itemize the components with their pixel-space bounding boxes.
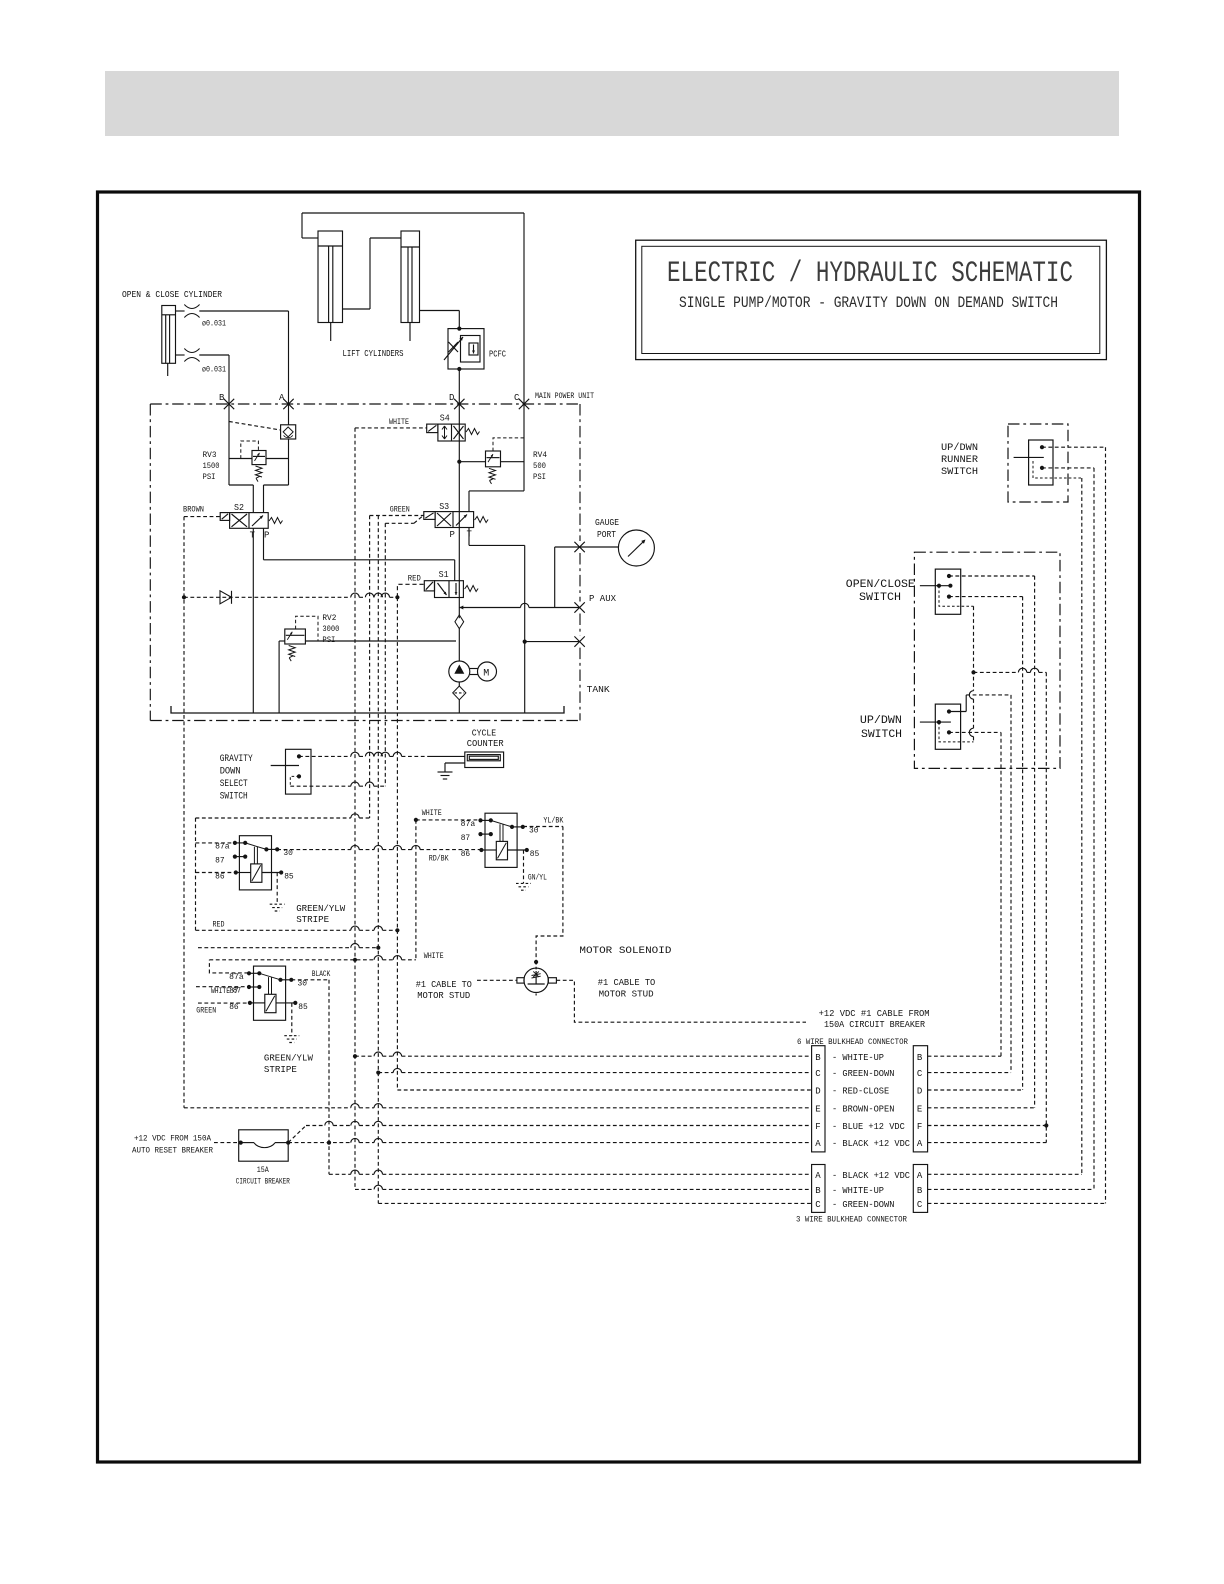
wire: green vertical 2 xyxy=(377,516,379,1204)
svg-text:M: M xyxy=(483,669,489,680)
wire: gravity switch to cycle counter xyxy=(299,755,430,757)
svg-text:87: 87 xyxy=(461,834,471,843)
junction arrow xyxy=(459,606,463,610)
wire: row B white-up xyxy=(355,1055,812,1057)
wire: red wire to S1 solenoid xyxy=(397,584,424,597)
svg-text:T: T xyxy=(250,531,256,541)
relay K3 ground xyxy=(291,1003,293,1036)
svg-text:WHITE: WHITE xyxy=(424,951,444,961)
cycle counter ground xyxy=(445,762,465,764)
svg-text:- WHITE-UP: - WHITE-UP xyxy=(832,1053,884,1063)
svg-text:BLACK: BLACK xyxy=(312,969,331,979)
wire: gravity select vertical xyxy=(384,523,386,786)
svg-text:YL/BK: YL/BK xyxy=(543,816,564,826)
wire: cable to motor stud (left) xyxy=(477,979,517,981)
port GAUGE xyxy=(574,542,584,552)
svg-text:D: D xyxy=(917,1087,922,1097)
wire: K3 87a harness xyxy=(209,960,248,973)
svg-text:STRIPE: STRIPE xyxy=(264,1064,297,1075)
svg-text:E: E xyxy=(815,1104,820,1114)
svg-text:87: 87 xyxy=(215,857,225,866)
svg-text:15A: 15A xyxy=(257,1165,270,1175)
svg-text:F: F xyxy=(917,1122,922,1132)
svg-text:ø0.031: ø0.031 xyxy=(202,365,226,375)
svg-text:GREEN: GREEN xyxy=(390,505,410,515)
svg-text:B: B xyxy=(815,1186,821,1196)
wire: 3wire row A xyxy=(329,1173,812,1175)
svg-text:UP/DWN: UP/DWN xyxy=(941,442,978,454)
3 wire connector right column xyxy=(913,1165,927,1213)
wire: PCFC to node D xyxy=(458,369,460,404)
pilot check valve (A line) xyxy=(281,425,296,439)
wire: open/close common xyxy=(939,586,974,607)
svg-text:- BLACK +12 VDC: - BLACK +12 VDC xyxy=(832,1139,911,1149)
svg-text:PCFC: PCFC xyxy=(489,349,506,360)
svg-text:+12 VDC #1 CABLE FROM: +12 VDC #1 CABLE FROM xyxy=(819,1008,930,1019)
svg-text:C: C xyxy=(917,1200,923,1210)
svg-text:BROWN: BROWN xyxy=(183,505,204,515)
wire: close contact xyxy=(949,596,1023,598)
wire: right row B xyxy=(928,1055,1001,1057)
wire: up contact xyxy=(949,711,966,713)
up/dwn runner switch box xyxy=(1008,424,1068,502)
svg-text:GRAVITY: GRAVITY xyxy=(220,753,254,765)
svg-text:87a: 87a xyxy=(215,843,230,852)
svg-text:S3: S3 xyxy=(439,502,449,512)
lift cylinder 1 xyxy=(318,231,343,323)
svg-text:UP/DWN: UP/DWN xyxy=(860,715,902,727)
wire: K2 white drop xyxy=(415,820,417,960)
page header gray bar xyxy=(105,71,1119,136)
svg-text:A: A xyxy=(917,1171,923,1181)
wire: right 3wire rows xyxy=(928,1173,1082,1175)
wire: row A black +12 xyxy=(288,1142,811,1144)
svg-text:MOTOR STUD: MOTOR STUD xyxy=(599,990,654,1000)
svg-text:- BROWN-OPEN: - BROWN-OPEN xyxy=(832,1104,894,1114)
svg-text:+12 VDC FROM 150A: +12 VDC FROM 150A xyxy=(134,1134,212,1144)
wire: P AUX line xyxy=(459,607,579,609)
suction filter xyxy=(458,682,460,686)
gauge xyxy=(618,530,654,566)
svg-text:ELECTRIC / HYDRAULIC SCHEMATIC: ELECTRIC / HYDRAULIC SCHEMATIC xyxy=(667,256,1073,290)
svg-text:P: P xyxy=(450,530,455,540)
wire: gravity switch lower xyxy=(290,785,385,787)
svg-text:PSI: PSI xyxy=(203,472,216,482)
svg-text:GREEN/YLW: GREEN/YLW xyxy=(264,1053,313,1064)
svg-text:ø0.031: ø0.031 xyxy=(202,319,226,329)
wire: brown wire to S2 solenoid xyxy=(184,516,220,518)
wire: green branch lead xyxy=(198,947,378,949)
svg-text:GN/YL: GN/YL xyxy=(528,873,547,883)
svg-text:S1: S1 xyxy=(439,570,449,580)
svg-text:85: 85 xyxy=(284,873,294,882)
shaft xyxy=(470,668,478,670)
svg-text:87a: 87a xyxy=(229,973,244,982)
svg-text:30: 30 xyxy=(529,827,539,836)
wire: breaker to F row xyxy=(288,1126,306,1143)
svg-text:GREEN/YLW: GREEN/YLW xyxy=(296,903,345,914)
wire: right vertical B xyxy=(1000,732,1002,1056)
svg-text:A: A xyxy=(815,1171,821,1181)
wire: white vertical xyxy=(354,428,356,1190)
svg-text:86: 86 xyxy=(215,873,225,882)
runner switch xyxy=(1029,440,1053,485)
svg-text:C: C xyxy=(514,393,520,403)
svg-text:30: 30 xyxy=(298,980,308,989)
wire: green wires to S3 solenoid xyxy=(370,515,424,517)
wire: breaker supply xyxy=(214,1142,241,1144)
3 wire connector left column xyxy=(812,1165,825,1213)
svg-text:3 WIRE BULKHEAD CONNECTOR: 3 WIRE BULKHEAD CONNECTOR xyxy=(796,1215,907,1225)
wire: S2 T to tank xyxy=(252,528,254,713)
switch enclosure dash-dot box xyxy=(914,552,1060,768)
wire: right row F xyxy=(928,1125,1047,1127)
svg-text:500: 500 xyxy=(533,461,546,471)
svg-text:D: D xyxy=(815,1087,820,1097)
svg-text:CYCLE: CYCLE xyxy=(472,728,497,739)
wire: down contact xyxy=(949,731,1001,733)
wire: open contact xyxy=(949,575,1035,577)
wire: K2 30 YL/BK xyxy=(523,826,563,828)
svg-text:LIFT CYLINDERS: LIFT CYLINDERS xyxy=(343,348,404,359)
svg-text:STRIPE: STRIPE xyxy=(296,914,329,925)
svg-text:COUNTER: COUNTER xyxy=(467,738,504,749)
wire: tank line xyxy=(305,640,456,642)
port TANK xyxy=(574,636,584,646)
main power unit dash-dot box xyxy=(150,403,580,405)
svg-text:TANK: TANK xyxy=(587,684,610,695)
svg-text:C: C xyxy=(917,1069,923,1079)
6 wire connector left column xyxy=(812,1046,825,1152)
6 wire connector right column xyxy=(913,1046,927,1152)
wire: node B line xyxy=(228,355,230,485)
wire: right row C xyxy=(928,1072,1011,1074)
wire: right row E xyxy=(928,1107,1035,1109)
svg-text:SELECT: SELECT xyxy=(220,778,248,790)
check valve (pump outlet) xyxy=(455,615,464,629)
wire: white wire to S4 solenoid xyxy=(355,427,427,429)
wire: cylinder2 port to PCFC xyxy=(420,310,460,312)
svg-text:SINGLE PUMP/MOTOR - GRAVITY DO: SINGLE PUMP/MOTOR - GRAVITY DOWN ON DEMA… xyxy=(679,294,1058,312)
wire: K2 87a white lead xyxy=(416,819,481,821)
wire: row C green-down xyxy=(378,1072,811,1074)
svg-text:SWITCH: SWITCH xyxy=(220,791,248,803)
svg-text:- GREEN-DOWN: - GREEN-DOWN xyxy=(832,1200,894,1210)
svg-text:P AUX: P AUX xyxy=(589,593,616,604)
relay K2 xyxy=(485,813,517,867)
wire: row F blue +12 xyxy=(306,1125,812,1127)
pump xyxy=(449,661,470,682)
open/close switch xyxy=(935,569,960,614)
svg-text:WHITE: WHITE xyxy=(211,986,230,996)
lift cylinder 2 xyxy=(401,231,420,323)
title block xyxy=(636,240,1107,359)
wire: runner vertical C xyxy=(1105,447,1107,1203)
svg-text:A: A xyxy=(815,1139,821,1149)
wire: D line to P AUX junction xyxy=(458,581,460,598)
svg-text:30: 30 xyxy=(283,849,293,858)
diode D1 xyxy=(184,596,397,598)
motor M xyxy=(478,662,497,681)
svg-text:RED: RED xyxy=(213,920,225,930)
relay K1 xyxy=(239,836,271,890)
wire: K3 87 lead xyxy=(196,986,248,988)
svg-text:#1 CABLE TO: #1 CABLE TO xyxy=(416,980,472,990)
circuit breaker CB1 xyxy=(239,1130,289,1161)
svg-text:150A CIRCUIT BREAKER: 150A CIRCUIT BREAKER xyxy=(824,1019,925,1030)
wire: common +12 link xyxy=(974,671,1047,673)
svg-text:3000: 3000 xyxy=(322,624,339,634)
relay K3 xyxy=(254,966,286,1020)
svg-text:F: F xyxy=(815,1122,820,1132)
svg-text:SWITCH: SWITCH xyxy=(859,592,901,604)
svg-text:RED: RED xyxy=(408,574,421,584)
relay K2 ground GN/YL xyxy=(523,850,525,884)
svg-text:85: 85 xyxy=(530,850,540,859)
wire: YL/BK drop to motor solenoid xyxy=(536,827,563,961)
svg-text:AUTO RESET BREAKER: AUTO RESET BREAKER xyxy=(132,1146,213,1156)
svg-text:PORT: PORT xyxy=(597,529,616,540)
wire: gauge line xyxy=(555,546,619,548)
svg-text:B: B xyxy=(815,1053,821,1063)
wire: B/A loop bottom xyxy=(229,484,253,486)
svg-text:B: B xyxy=(219,393,225,403)
svg-text:- GREEN-DOWN: - GREEN-DOWN xyxy=(832,1069,894,1079)
tank xyxy=(171,706,564,713)
wire: runner vertical B xyxy=(1093,468,1095,1190)
wire: right vertical D xyxy=(1022,597,1024,1090)
node: brown/diode junction xyxy=(182,595,186,599)
relief valve RV4 xyxy=(459,461,485,463)
svg-text:PSI: PSI xyxy=(322,635,335,645)
wire: runner vertical A xyxy=(1081,478,1083,1174)
svg-text:MOTOR STUD: MOTOR STUD xyxy=(417,991,470,1001)
wire: cylinder bottom port with orifice xyxy=(176,354,185,356)
port P AUX xyxy=(574,602,584,612)
wire: brown vertical xyxy=(183,517,185,1108)
svg-text:RV2: RV2 xyxy=(322,613,336,623)
wire: runner bottom contact xyxy=(1042,467,1094,469)
svg-text:D: D xyxy=(449,393,454,403)
svg-text:B: B xyxy=(917,1053,923,1063)
svg-text:GAUGE: GAUGE xyxy=(595,517,619,528)
svg-text:86: 86 xyxy=(461,850,471,859)
wire: relay K1 87a lead xyxy=(196,842,235,844)
svg-text:SWITCH: SWITCH xyxy=(941,466,978,478)
svg-text:S4: S4 xyxy=(440,414,450,424)
wire: green vertical 1 xyxy=(369,516,371,819)
svg-text:85: 85 xyxy=(298,1003,308,1012)
wire: 3wire row B xyxy=(355,1188,812,1190)
port A xyxy=(283,399,293,409)
svg-text:RV3: RV3 xyxy=(203,450,217,460)
gravity down select switch xyxy=(286,749,312,794)
wire: right vertical C xyxy=(1010,695,1012,1073)
relief valve RV3 xyxy=(229,458,252,460)
wire: right vertical E xyxy=(1034,576,1036,1108)
svg-text:MOTOR SOLENOID: MOTOR SOLENOID xyxy=(579,945,671,957)
outer border frame xyxy=(98,192,1140,1462)
wire: runner top contact xyxy=(1042,446,1106,448)
wire: up/dwn common xyxy=(939,722,974,742)
svg-text:87: 87 xyxy=(233,987,241,996)
wire: red vertical xyxy=(396,597,398,1090)
wire: relay K1 86 lead xyxy=(196,872,236,874)
svg-text:87a: 87a xyxy=(461,820,476,829)
svg-text:PSI: PSI xyxy=(533,472,546,482)
wire: right row D xyxy=(928,1089,1023,1091)
wire: cylinder top port with orifice xyxy=(176,310,185,312)
svg-text:86: 86 xyxy=(229,1003,239,1012)
wire: cylinder1 port xyxy=(343,308,371,310)
svg-text:A: A xyxy=(279,393,285,403)
svg-text:- BLUE +12 VDC: - BLUE +12 VDC xyxy=(832,1122,905,1132)
svg-text:DOWN: DOWN xyxy=(220,766,241,778)
wire: S2 P to S1 xyxy=(263,528,265,560)
wire: right vertical F/A xyxy=(1045,672,1047,1142)
wire: K1-30 to K2-86 (RD/BK) xyxy=(277,849,480,851)
relay K1 ground xyxy=(276,873,278,905)
wire: lift cylinder top pipe xyxy=(302,212,524,214)
svg-text:S2: S2 xyxy=(234,503,244,513)
wire: C line down to S3 loop xyxy=(523,404,525,491)
svg-text:OPEN/CLOSE: OPEN/CLOSE xyxy=(846,579,915,591)
svg-text:E: E xyxy=(917,1104,922,1114)
svg-text:C: C xyxy=(815,1069,821,1079)
wire: white run xyxy=(209,959,416,961)
wire: K3 86 lead xyxy=(198,1002,248,1004)
svg-text:SWITCH: SWITCH xyxy=(861,729,902,741)
wire: relay K1 lower lead xyxy=(196,929,398,931)
wire: S3 to S1 (D line) xyxy=(458,528,460,581)
svg-text:- RED-CLOSE: - RED-CLOSE xyxy=(832,1087,889,1097)
svg-text:#1 CABLE TO: #1 CABLE TO xyxy=(598,978,656,988)
svg-text:WHITE: WHITE xyxy=(389,417,409,427)
wire: node A line xyxy=(288,311,290,425)
svg-text:- WHITE-UP: - WHITE-UP xyxy=(832,1186,884,1196)
wire: K3 30 black lead xyxy=(291,979,329,981)
up/dwn switch xyxy=(935,704,960,749)
wire: +12VDC cable from breaker xyxy=(556,980,806,1022)
svg-text:B: B xyxy=(917,1186,923,1196)
svg-text:P: P xyxy=(264,531,269,541)
svg-text:C: C xyxy=(815,1200,821,1210)
svg-text:WHITE: WHITE xyxy=(422,808,442,818)
wire: black vertical xyxy=(328,980,330,1175)
pilot line (dashed) B to check valve xyxy=(229,422,281,431)
svg-text:CIRCUIT BREAKER: CIRCUIT BREAKER xyxy=(236,1177,290,1187)
node C feed line xyxy=(523,213,525,404)
wire: right row A xyxy=(928,1142,1047,1144)
svg-text:GREEN: GREEN xyxy=(196,1006,216,1016)
node: red wire junction xyxy=(395,595,399,599)
svg-text:RUNNER: RUNNER xyxy=(941,454,979,466)
svg-text:RD/BK: RD/BK xyxy=(429,855,449,864)
wire: row D red-close xyxy=(397,1089,811,1091)
port D xyxy=(454,399,464,409)
svg-text:RV4: RV4 xyxy=(533,450,547,460)
flow control PCFC xyxy=(448,329,484,369)
relief valve RV2 xyxy=(278,641,280,713)
wire: S4 to S3 (D line) xyxy=(458,424,460,441)
svg-text:MAIN POWER UNIT: MAIN POWER UNIT xyxy=(535,391,594,401)
svg-text:- BLACK +12 VDC: - BLACK +12 VDC xyxy=(832,1171,911,1181)
port C xyxy=(519,399,529,409)
svg-text:OPEN & CLOSE CYLINDER: OPEN & CLOSE CYLINDER xyxy=(122,289,222,300)
open/close cylinder xyxy=(162,306,176,364)
wire: relay K1 harness top xyxy=(196,817,370,819)
wire: S3 T loop to tank line xyxy=(468,528,470,546)
wire: relay K1 harness left xyxy=(195,818,197,930)
wire: 3wire row C xyxy=(378,1202,811,1204)
svg-text:1500: 1500 xyxy=(203,461,220,471)
svg-text:A: A xyxy=(917,1139,923,1149)
port B xyxy=(224,399,234,409)
wire: row E brown-open xyxy=(184,1107,812,1109)
